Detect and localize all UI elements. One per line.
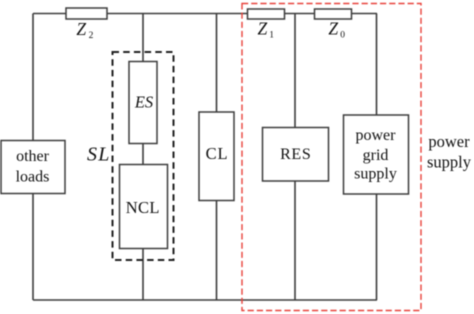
- svg-text:other: other: [16, 148, 50, 165]
- wire CL branch upper: [216, 14, 218, 113]
- wire grid branch upper: [376, 14, 378, 116]
- wire bottom bus: [33, 299, 377, 301]
- svg-text:power: power: [428, 132, 470, 151]
- wire RES branch lower: [294, 181, 296, 300]
- wire RES branch upper: [294, 14, 296, 128]
- wire ES to NCL: [142, 144, 144, 165]
- box CL: [199, 112, 234, 201]
- box power grid supply: [344, 115, 409, 194]
- svg-text:loads: loads: [16, 168, 50, 185]
- box other loads: [1, 141, 65, 194]
- wire grid branch lower: [376, 194, 378, 300]
- wire left branch lower: [32, 193, 34, 300]
- wire left branch upper: [32, 14, 34, 142]
- svg-text:SL: SL: [87, 144, 111, 166]
- dashed box power supply (red): [242, 4, 421, 311]
- impedance Z0: [315, 9, 352, 19]
- svg-text:0: 0: [340, 31, 345, 41]
- box ES: [129, 62, 157, 144]
- svg-text:grid: grid: [363, 147, 389, 164]
- svg-text:2: 2: [89, 31, 94, 41]
- svg-text:ES: ES: [134, 92, 153, 111]
- svg-text:CL: CL: [206, 144, 229, 163]
- svg-text:1: 1: [269, 31, 274, 41]
- svg-text:Z: Z: [76, 19, 86, 39]
- dashed box SL: [113, 52, 174, 260]
- svg-text:RES: RES: [280, 146, 311, 163]
- wire top bus: [33, 13, 377, 15]
- wire NCL to bottom: [142, 249, 144, 301]
- impedance Z1: [248, 9, 285, 19]
- impedance Z2: [66, 8, 107, 19]
- svg-text:NCL: NCL: [126, 198, 160, 217]
- svg-text:supply: supply: [427, 152, 472, 171]
- svg-text:power: power: [356, 127, 397, 144]
- wire SL branch upper: [142, 14, 144, 62]
- svg-text:Z: Z: [258, 19, 268, 39]
- box RES: [263, 128, 329, 182]
- svg-text:Z: Z: [328, 19, 338, 39]
- box NCL: [120, 165, 168, 249]
- wire CL branch lower: [216, 201, 218, 301]
- svg-text:supply: supply: [354, 166, 397, 183]
